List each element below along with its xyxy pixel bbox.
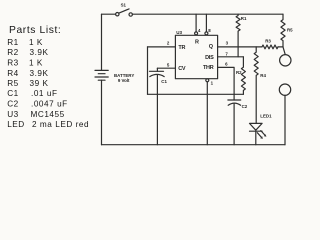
svg-text:R1: R1 bbox=[241, 16, 247, 21]
svg-text:C2: C2 bbox=[7, 100, 19, 109]
wire bottom ground rail bbox=[102, 144, 286, 146]
wire CV to C1 bbox=[156, 68, 158, 71]
svg-text:8: 8 bbox=[208, 28, 211, 33]
svg-text:THR: THR bbox=[203, 65, 214, 71]
wire battery top lead bbox=[101, 14, 103, 70]
wire terminal 2 to ground rail bbox=[284, 95, 286, 144]
wire TR down leg bbox=[147, 47, 149, 94]
pin 4 bbox=[195, 14, 201, 35]
svg-text:LED: LED bbox=[7, 120, 25, 129]
pin 8 bbox=[205, 14, 211, 35]
svg-text:Q: Q bbox=[209, 44, 214, 50]
svg-text:1 K: 1 K bbox=[29, 38, 43, 47]
wire top rail left segment bbox=[102, 13, 116, 15]
svg-text:TR: TR bbox=[178, 45, 185, 51]
svg-text:Parts List:: Parts List: bbox=[9, 25, 61, 36]
svg-text:LED1: LED1 bbox=[260, 114, 272, 119]
svg-text:.0047 uF: .0047 uF bbox=[31, 100, 68, 109]
capacitor C2 bbox=[228, 100, 248, 109]
svg-text:R3: R3 bbox=[7, 59, 19, 68]
svg-text:R: R bbox=[195, 39, 199, 45]
resistor R5 bbox=[281, 14, 293, 47]
resistor R1 bbox=[236, 14, 247, 57]
svg-text:4: 4 bbox=[198, 28, 201, 33]
wire R3 to R5 node bbox=[278, 46, 283, 48]
svg-text:C1: C1 bbox=[161, 79, 167, 84]
resistor R2 bbox=[236, 57, 245, 95]
svg-text:.01 uF: .01 uF bbox=[31, 89, 58, 98]
svg-text:R2: R2 bbox=[236, 70, 242, 75]
battery B1 bbox=[95, 70, 134, 83]
svg-text:7: 7 bbox=[225, 52, 228, 57]
wire pin 7 DIS line bbox=[218, 56, 244, 58]
svg-text:5: 5 bbox=[167, 62, 170, 67]
svg-text:U3: U3 bbox=[176, 30, 182, 35]
wire C2 to ground rail bbox=[233, 104, 235, 145]
resistor R4 bbox=[254, 47, 266, 124]
svg-text:1: 1 bbox=[211, 81, 214, 86]
LED1 bbox=[250, 114, 273, 139]
op-amp U3 timer IC body bbox=[175, 35, 217, 78]
wire R5/R3 node to terminal 1 bbox=[283, 47, 285, 55]
svg-text:BATTERY: BATTERY bbox=[114, 73, 134, 78]
svg-text:R1: R1 bbox=[7, 38, 19, 47]
wire battery bottom lead bbox=[101, 80, 103, 145]
svg-text:CV: CV bbox=[178, 66, 186, 72]
svg-text:U3: U3 bbox=[7, 110, 19, 119]
svg-text:2 ma LED red: 2 ma LED red bbox=[32, 120, 89, 129]
svg-text:R4: R4 bbox=[260, 73, 266, 78]
terminal J2 bbox=[279, 84, 290, 95]
pin 1 bbox=[206, 79, 214, 86]
switch S1 bbox=[116, 2, 133, 16]
wire TR to R2/C2 node line bbox=[148, 93, 244, 95]
wire C1 to ground rail bbox=[156, 75, 158, 145]
svg-text:C2: C2 bbox=[242, 104, 248, 109]
capacitor C1 bbox=[150, 71, 168, 84]
svg-text:R5: R5 bbox=[287, 28, 293, 33]
svg-text:39 K: 39 K bbox=[30, 79, 49, 88]
svg-text:2: 2 bbox=[167, 40, 170, 45]
svg-text:1 K: 1 K bbox=[29, 59, 43, 68]
svg-text:9 Volt: 9 Volt bbox=[118, 78, 130, 83]
svg-text:R2: R2 bbox=[7, 48, 19, 57]
svg-text:6: 6 bbox=[225, 61, 228, 66]
resistor R3 bbox=[262, 38, 278, 49]
wire pin 1 to ground rail bbox=[206, 82, 208, 145]
wire pin 5 CV stub bbox=[157, 67, 175, 69]
wire pin 2 TR stub bbox=[148, 46, 176, 48]
wire pin 6 THR line down to C2 bbox=[218, 67, 235, 100]
svg-text:R4: R4 bbox=[7, 69, 19, 78]
svg-text:3.9K: 3.9K bbox=[30, 69, 49, 78]
wire pin 3 Q output line bbox=[218, 46, 262, 48]
wire top rail right segment bbox=[132, 13, 283, 15]
svg-text:3.9K: 3.9K bbox=[30, 48, 49, 57]
svg-text:C1: C1 bbox=[7, 89, 19, 98]
svg-text:MC1455: MC1455 bbox=[31, 110, 65, 119]
svg-text:S1: S1 bbox=[121, 2, 127, 7]
wire LED to ground rail bbox=[255, 131, 257, 145]
svg-text:R3: R3 bbox=[265, 38, 271, 43]
svg-text:3: 3 bbox=[226, 41, 229, 46]
terminal J1 bbox=[280, 55, 291, 66]
svg-text:DIS: DIS bbox=[205, 55, 214, 61]
svg-text:R5: R5 bbox=[7, 79, 19, 88]
